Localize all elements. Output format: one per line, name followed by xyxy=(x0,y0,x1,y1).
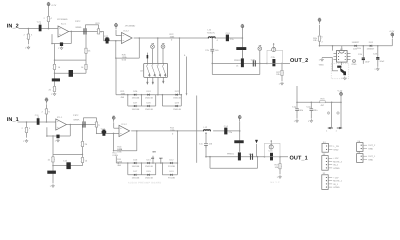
svg-text:1: 1 xyxy=(336,129,338,132)
svg-text:10uF: 10uF xyxy=(379,60,385,63)
svg-text:1N4148: 1N4148 xyxy=(132,165,140,168)
svg-text:C24: C24 xyxy=(226,32,231,35)
svg-text:C1d: C1d xyxy=(63,160,68,163)
svg-text:IN_1: IN_1 xyxy=(7,117,19,123)
svg-text:C21: C21 xyxy=(37,20,42,23)
svg-text:2: 2 xyxy=(24,34,26,37)
svg-text:4k7: 4k7 xyxy=(321,104,325,107)
svg-text:C2c: C2c xyxy=(205,49,210,52)
svg-text:1N4148: 1N4148 xyxy=(145,165,153,168)
svg-text:C28: C28 xyxy=(373,53,378,56)
svg-text:100k: 100k xyxy=(170,129,176,132)
svg-text:C26: C26 xyxy=(358,53,363,56)
svg-text:AUDIO PREAMP BOARD: AUDIO PREAMP BOARD xyxy=(128,182,162,185)
svg-text:2: 2 xyxy=(22,127,24,130)
svg-text:D17: D17 xyxy=(133,170,138,173)
svg-text:C2g: C2g xyxy=(307,105,312,108)
svg-text:C14: C14 xyxy=(224,125,229,128)
svg-text:D25: D25 xyxy=(147,101,152,104)
svg-text:4: 4 xyxy=(31,34,33,37)
svg-text:MUTE_2: MUTE_2 xyxy=(333,160,342,163)
svg-text:2: 2 xyxy=(42,110,44,113)
svg-text:MR: MR xyxy=(159,157,163,160)
svg-text:1: 1 xyxy=(326,129,328,132)
svg-text:rev 1.2: rev 1.2 xyxy=(270,181,280,184)
svg-text:D22: D22 xyxy=(175,90,180,93)
svg-text:AGND: AGND xyxy=(333,167,340,170)
svg-text:1k: 1k xyxy=(85,159,88,162)
svg-text:OUT_1: OUT_1 xyxy=(368,155,376,158)
svg-text:IN_2: IN_2 xyxy=(333,164,338,167)
svg-text:MR: MR xyxy=(153,151,157,154)
svg-text:10k: 10k xyxy=(275,166,279,169)
svg-text:+12V: +12V xyxy=(337,90,343,93)
svg-text:1k: 1k xyxy=(58,66,61,69)
svg-text:C11: C11 xyxy=(35,114,40,117)
svg-text:GND: GND xyxy=(352,63,357,66)
svg-text:WIMA: WIMA xyxy=(73,118,79,121)
svg-text:b: b xyxy=(322,36,324,39)
svg-text:U2: U2 xyxy=(140,69,144,72)
svg-text:C2b: C2b xyxy=(271,56,276,59)
svg-text:JFC4558D: JFC4558D xyxy=(57,18,68,21)
svg-text:1k: 1k xyxy=(236,64,239,67)
svg-text:2k: 2k xyxy=(49,88,52,91)
svg-text:100n: 100n xyxy=(313,109,319,112)
svg-text:C2P2: C2P2 xyxy=(75,20,81,23)
svg-text:22u: 22u xyxy=(230,38,234,41)
svg-text:GND: GND xyxy=(319,63,324,66)
svg-text:b: b xyxy=(171,39,173,42)
svg-text:1k: 1k xyxy=(81,66,84,69)
svg-text:L12: L12 xyxy=(204,126,208,129)
svg-text:MR: MR xyxy=(151,157,155,160)
svg-text:D24: D24 xyxy=(369,41,374,44)
svg-text:JFC4558D: JFC4558D xyxy=(125,24,136,27)
svg-text:FO10B: FO10B xyxy=(168,176,175,179)
svg-text:1k: 1k xyxy=(48,159,51,162)
svg-text:4: 4 xyxy=(217,39,219,42)
svg-text:IC1.1: IC1.1 xyxy=(57,116,63,119)
svg-text:1N4148: 1N4148 xyxy=(145,108,153,111)
svg-text:+12V: +12V xyxy=(51,4,57,7)
svg-text:IC1.2: IC1.2 xyxy=(122,123,128,126)
svg-text:22u: 22u xyxy=(229,131,233,134)
svg-text:GND: GND xyxy=(334,148,339,151)
svg-text:TDK27u: TDK27u xyxy=(207,31,216,34)
svg-text:2: 2 xyxy=(44,17,46,20)
svg-text:R21: R21 xyxy=(121,90,126,93)
svg-text:10k: 10k xyxy=(276,73,280,76)
svg-text:C1c: C1c xyxy=(199,142,204,145)
svg-text:1N4148: 1N4148 xyxy=(145,176,153,179)
svg-text:4: 4 xyxy=(98,124,100,127)
svg-text:D27: D27 xyxy=(133,101,138,104)
svg-text:IN_2: IN_2 xyxy=(7,24,19,30)
svg-text:+12V: +12V xyxy=(389,30,395,33)
svg-text:0.06k: 0.06k xyxy=(113,154,119,157)
svg-text:1N4148: 1N4148 xyxy=(132,97,140,100)
svg-text:b: b xyxy=(172,132,174,135)
svg-text:C16: C16 xyxy=(269,150,274,153)
svg-text:D23: D23 xyxy=(175,101,180,104)
svg-text:MUTE_1: MUTE_1 xyxy=(333,180,342,183)
svg-text:4k8: 4k8 xyxy=(117,164,121,167)
svg-text:OUT_2: OUT_2 xyxy=(368,144,376,147)
svg-text:OUT_1: OUT_1 xyxy=(290,155,308,161)
svg-text:10uF: 10uF xyxy=(365,60,371,63)
svg-text:1n5: 1n5 xyxy=(215,49,219,52)
svg-text:2k: 2k xyxy=(88,50,91,53)
svg-text:C1g: C1g xyxy=(292,105,297,108)
svg-text:1N4148: 1N4148 xyxy=(145,97,153,100)
svg-text:R23: R23 xyxy=(96,22,101,25)
svg-text:1N4007: 1N4007 xyxy=(352,41,360,44)
svg-text:1N4148: 1N4148 xyxy=(173,97,181,100)
svg-text:IN_1: IN_1 xyxy=(333,183,338,186)
svg-text:b: b xyxy=(184,54,186,57)
svg-text:2: 2 xyxy=(322,41,324,44)
svg-text:4: 4 xyxy=(29,127,31,130)
svg-text:C1P2: C1P2 xyxy=(73,114,79,117)
svg-text:PRE02: PRE02 xyxy=(234,59,242,62)
svg-text:D2a: D2a xyxy=(357,47,362,50)
svg-text:OUT_2: OUT_2 xyxy=(290,58,308,64)
svg-text:1N4148: 1N4148 xyxy=(173,108,181,111)
svg-text:D12: D12 xyxy=(170,159,175,162)
svg-text:IC2.2: IC2.2 xyxy=(124,30,130,33)
svg-text:1N4148: 1N4148 xyxy=(132,176,140,179)
svg-text:4: 4 xyxy=(49,110,51,113)
svg-text:GND: GND xyxy=(368,159,373,162)
svg-text:D16: D16 xyxy=(133,159,138,162)
svg-text:WIMA: WIMA xyxy=(75,26,81,29)
svg-text:R1h: R1h xyxy=(321,97,326,100)
svg-text:IC2.1: IC2.1 xyxy=(61,23,67,26)
svg-text:1N4007: 1N4007 xyxy=(367,48,375,51)
svg-text:D15: D15 xyxy=(147,170,152,173)
svg-text:AGND: AGND xyxy=(333,186,340,189)
svg-text:1n5: 1n5 xyxy=(209,142,213,145)
svg-text:4: 4 xyxy=(51,17,53,20)
svg-text:100n: 100n xyxy=(298,109,304,112)
svg-text:D26: D26 xyxy=(133,90,138,93)
svg-text:L_CH: L_CH xyxy=(334,145,340,148)
svg-text:+12V: +12V xyxy=(333,157,339,160)
svg-text:D13: D13 xyxy=(170,170,175,173)
svg-text:2k: 2k xyxy=(85,143,88,146)
svg-text:4k8: 4k8 xyxy=(121,96,125,99)
svg-text:GND: GND xyxy=(368,148,373,151)
svg-text:FO10B: FO10B xyxy=(168,165,175,168)
svg-text:L22: L22 xyxy=(208,29,212,32)
svg-text:1N4148: 1N4148 xyxy=(132,108,140,111)
svg-text:+12V: +12V xyxy=(333,176,339,179)
svg-text:PRE01: PRE01 xyxy=(227,153,235,156)
svg-text:D24: D24 xyxy=(147,90,152,93)
